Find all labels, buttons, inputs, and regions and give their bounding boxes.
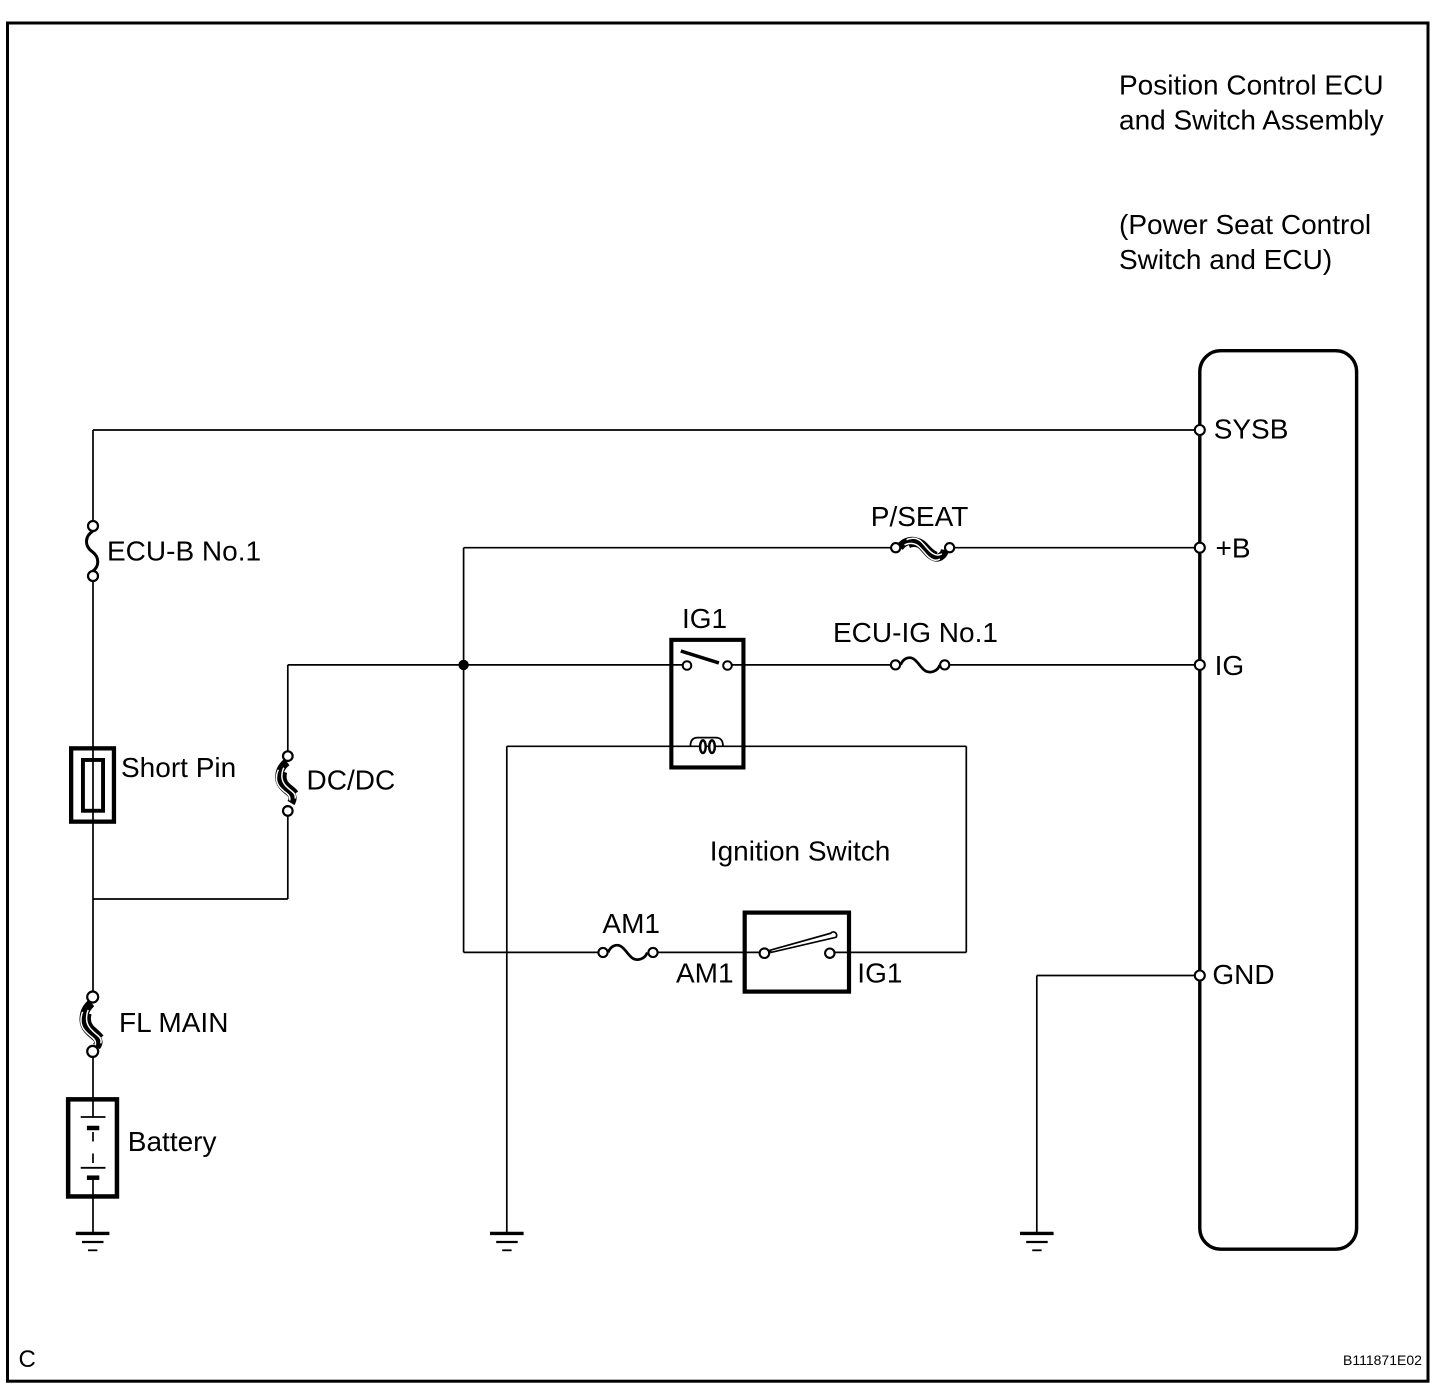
svg-text:Ignition Switch: Ignition Switch	[710, 836, 891, 867]
svg-text:P/SEAT: P/SEAT	[871, 501, 969, 532]
svg-text:AM1: AM1	[602, 908, 660, 939]
svg-text:IG: IG	[1215, 650, 1245, 681]
svg-text:ECU-IG No.1: ECU-IG No.1	[833, 617, 998, 648]
svg-text:Battery: Battery	[128, 1126, 217, 1157]
svg-text:SYSB: SYSB	[1214, 413, 1289, 444]
svg-text:GND: GND	[1212, 959, 1274, 990]
svg-text:AM1: AM1	[676, 957, 734, 988]
svg-text:C: C	[19, 1346, 36, 1373]
svg-text:IG1: IG1	[857, 957, 902, 988]
svg-text:IG1: IG1	[682, 603, 727, 634]
svg-text:Position Control ECU: Position Control ECU	[1119, 70, 1384, 101]
svg-text:B111871E02: B111871E02	[1343, 1352, 1422, 1368]
svg-text:ECU-B No.1: ECU-B No.1	[107, 536, 261, 567]
svg-text:FL MAIN: FL MAIN	[119, 1007, 228, 1038]
svg-text:DC/DC: DC/DC	[307, 764, 396, 795]
svg-text:Switch and ECU): Switch and ECU)	[1119, 244, 1332, 275]
svg-text:Short Pin: Short Pin	[121, 752, 236, 783]
svg-text:and Switch Assembly: and Switch Assembly	[1119, 104, 1384, 135]
svg-text:+B: +B	[1216, 533, 1251, 564]
svg-text:(Power Seat Control: (Power Seat Control	[1119, 209, 1371, 240]
